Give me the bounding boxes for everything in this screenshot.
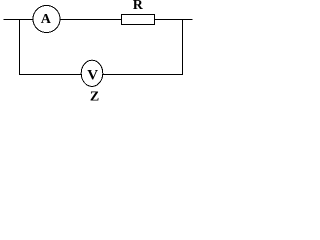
wire left vertical [19,20,21,76]
svg-text:A: A [41,12,52,27]
resistor R box [122,15,155,25]
svg-text:V: V [87,68,98,84]
svg-text:R: R [133,0,144,13]
wire top horizontal [4,19,193,21]
voltmeter V1 ellipse [81,60,103,86]
wire right vertical [182,20,184,76]
wire bottom horizontal [20,74,183,76]
ammeter A1 circle [33,6,60,33]
svg-text:Z: Z [90,89,99,101]
